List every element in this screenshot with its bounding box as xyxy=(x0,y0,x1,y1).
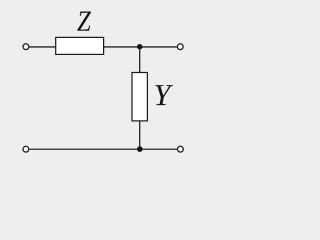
label Z xyxy=(77,11,91,30)
node A (top junction dot) xyxy=(137,44,142,49)
terminal: bottom-right (open circle) xyxy=(178,146,184,152)
terminal: top-right (open circle) xyxy=(177,44,183,50)
wire: bottom rail xyxy=(29,148,177,150)
terminal: top-left (open circle) xyxy=(23,44,29,50)
terminal: bottom-left (open circle) xyxy=(23,146,29,152)
admittance Y (shunt box) xyxy=(132,73,147,121)
wire: node A down to Y xyxy=(139,47,141,73)
wire: Z to top-right terminal xyxy=(104,46,178,48)
wire: top-left terminal to Z xyxy=(29,46,56,48)
impedance Z (series box) xyxy=(56,37,104,54)
wire: Y down to node B xyxy=(139,121,141,150)
node B (bottom junction dot) xyxy=(137,146,143,152)
label Y xyxy=(155,85,173,105)
